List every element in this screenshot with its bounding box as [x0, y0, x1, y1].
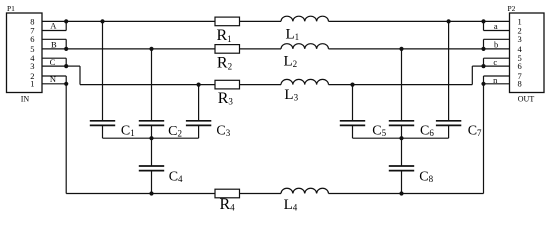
P1 pin 6 stub wire	[42, 38, 66, 40]
P2 pin 3 stub wire	[484, 38, 510, 40]
P2 pins 3-4 joiner wire	[483, 39, 485, 49]
svg-text:P2: P2	[508, 4, 516, 13]
P1 pin 1 stub wire	[42, 83, 66, 85]
svg-text:L4: L4	[284, 197, 298, 213]
P1 pin 4 stub wire	[42, 57, 66, 59]
resistor R1	[215, 17, 240, 26]
svg-text:P1: P1	[7, 4, 15, 13]
svg-text:3: 3	[30, 61, 34, 71]
P2 pins 1-2 joiner wire	[483, 21, 485, 30]
wire line A R1-L1 segment	[240, 20, 282, 22]
wire right capacitor bus	[353, 137, 449, 139]
wire line N left drop	[65, 84, 67, 194]
svg-text:A: A	[50, 21, 57, 31]
wire line N rail right segment	[329, 193, 484, 195]
wire line C stub from P1	[66, 65, 80, 67]
svg-text:6: 6	[30, 34, 34, 44]
junction C3 on line C	[197, 83, 201, 87]
junction node B at P1	[64, 47, 68, 51]
P1 pins 4-3 joiner wire	[65, 58, 67, 66]
resistor R2	[215, 45, 240, 54]
svg-text:R1: R1	[217, 27, 232, 44]
svg-text:C3: C3	[216, 123, 230, 138]
connector P2 body	[510, 13, 545, 93]
capacitor C7	[448, 21, 450, 120]
capacitor C2	[151, 49, 153, 121]
wire line C R3-L3 segment	[240, 84, 282, 86]
P2 pin 4 stub wire	[484, 48, 510, 50]
junction right bus to C8	[399, 136, 403, 140]
wire line A right segment	[329, 20, 484, 22]
P1 pin 8 stub wire	[42, 20, 66, 22]
wire line C right segment	[329, 84, 473, 86]
inductor L2	[281, 44, 329, 49]
P2 pin 1 stub wire	[484, 20, 510, 22]
svg-text:6: 6	[518, 61, 522, 71]
capacitor C4	[151, 138, 153, 166]
svg-text:C5: C5	[372, 123, 386, 138]
P1 pin 2 stub wire	[42, 75, 66, 77]
junction C4 on line N	[149, 191, 153, 195]
P2 pins 5-6 joiner wire	[483, 58, 485, 66]
wire line B left segment	[66, 48, 215, 50]
svg-text:B: B	[51, 39, 57, 49]
svg-text:C2: C2	[168, 124, 182, 139]
junction C7 on line A	[447, 19, 451, 23]
junction left bus to C4	[149, 136, 153, 140]
svg-text:C1: C1	[121, 123, 135, 138]
wire line C step-down	[79, 66, 81, 85]
svg-text:R2: R2	[217, 55, 232, 72]
P1 pins 2-1 joiner wire	[65, 76, 67, 84]
connector P1 body	[7, 13, 43, 93]
svg-text:L2: L2	[284, 53, 298, 69]
svg-text:C: C	[50, 57, 56, 67]
junction node A at P1	[64, 19, 68, 23]
svg-text:IN: IN	[21, 94, 30, 103]
junction C8 on line N	[399, 191, 403, 195]
P1 pin 3 stub wire	[42, 65, 66, 67]
svg-text:L3: L3	[284, 87, 298, 103]
P1 pin 7 stub wire	[42, 30, 66, 32]
svg-text:c: c	[493, 57, 497, 67]
wire line C left segment	[80, 84, 215, 86]
svg-text:a: a	[494, 21, 498, 31]
wire line N R4-L4 segment	[240, 193, 282, 195]
wire line N right riser	[483, 84, 485, 194]
capacitor C8	[401, 138, 403, 166]
junction C6 on line B	[399, 47, 403, 51]
P1 pins 8-7 joiner wire	[65, 21, 67, 30]
wire left capacitor bus	[103, 137, 199, 139]
P2 pin 6 stub wire	[484, 65, 510, 67]
junction C2 on line B	[149, 47, 153, 51]
resistor R4	[215, 189, 240, 198]
capacitor C6	[401, 49, 403, 121]
wire line B R2-L2 segment	[240, 48, 282, 50]
junction node N at P1	[64, 82, 68, 86]
svg-text:C8: C8	[419, 170, 433, 185]
wire line A left segment	[66, 20, 215, 22]
capacitor C1	[102, 21, 104, 120]
resistor R3	[215, 80, 240, 89]
junction node n at P2	[481, 82, 485, 86]
capacitor C5	[352, 85, 354, 121]
P2 pins 7-8 joiner wire	[483, 76, 485, 84]
svg-text:L1: L1	[286, 27, 300, 43]
svg-text:C7: C7	[468, 123, 482, 138]
wire line B right segment	[329, 48, 484, 50]
svg-text:C4: C4	[169, 170, 183, 185]
svg-text:1: 1	[30, 79, 34, 89]
inductor L1	[281, 16, 329, 21]
junction node b at P2	[481, 47, 485, 51]
P2 pin 7 stub wire	[484, 75, 510, 77]
wire line C stub to P2	[472, 65, 483, 67]
svg-text:n: n	[493, 75, 498, 85]
P2 pin 5 stub wire	[484, 57, 510, 59]
wire line C step-up	[471, 66, 473, 85]
P2 pin 8 stub wire	[484, 83, 510, 85]
P1 pin 5 stub wire	[42, 48, 66, 50]
svg-text:b: b	[494, 39, 498, 49]
wire line N rail left segment	[66, 193, 215, 195]
svg-text:3: 3	[518, 34, 522, 44]
svg-text:8: 8	[518, 79, 522, 89]
svg-text:R3: R3	[218, 90, 234, 107]
junction C5 on line C	[350, 83, 354, 87]
svg-text:N: N	[50, 74, 56, 84]
junction node a at P2	[481, 19, 485, 23]
P1 pins 6-5 joiner wire	[65, 39, 67, 49]
inductor L4	[281, 188, 329, 193]
svg-text:OUT: OUT	[518, 94, 535, 103]
junction node C at P1	[64, 64, 68, 68]
capacitor C3	[198, 85, 200, 121]
svg-text:C6: C6	[420, 123, 434, 138]
inductor L3	[281, 79, 329, 84]
P2 pin 2 stub wire	[484, 30, 510, 32]
junction C1 on line A	[100, 19, 104, 23]
junction node c at P2	[481, 64, 485, 68]
